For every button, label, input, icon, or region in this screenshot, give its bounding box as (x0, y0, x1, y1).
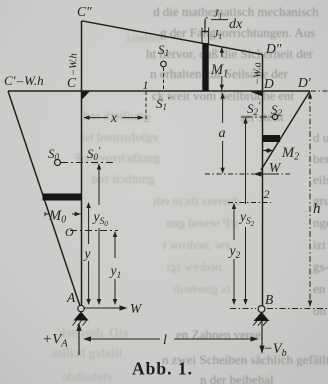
node S1 circle (161, 61, 167, 67)
svg-text:1: 1 (143, 78, 149, 92)
svg-text:.nedrew tgi: .nedrew tgi (166, 259, 225, 274)
svg-text:en Zahnen verse: en Zahnen verse (176, 327, 261, 342)
svg-text:C′ – W.h: C′ – W.h (4, 73, 44, 88)
svg-text:2: 2 (264, 187, 270, 201)
dx tick arrows (202, 30, 208, 33)
svg-text:−W.a: −W.a (253, 62, 264, 85)
svg-text:d u: d u (313, 130, 328, 145)
svg-text:C″: C″ (77, 4, 92, 19)
recto page text (gray) (146, 4, 328, 384)
svg-text:C: C (67, 75, 77, 90)
svg-text:eglofuzmed tsi: eglofuzmed tsi (81, 129, 158, 144)
svg-text:D″: D″ (265, 41, 282, 56)
moment bar M2 (263, 135, 281, 142)
svg-text:x: x (110, 110, 117, 125)
svg-text:nge: nge (313, 215, 328, 230)
B level dash-dot line (230, 308, 328, 310)
svg-text:Abb. 1.: Abb. 1. (132, 359, 193, 379)
beam axis dash-dot extension right of D' (311, 90, 328, 92)
svg-text:gs-: gs- (313, 259, 328, 274)
svg-text:a: a (219, 126, 226, 141)
node S0 circle (55, 160, 61, 166)
dimension y2 (233, 204, 235, 304)
svg-text:gnuthcir red: gnuthcir red (91, 171, 155, 186)
reaction +VA arrow (78, 331, 80, 355)
moment bar M1 (202, 43, 208, 91)
corner wedge at D (250, 92, 262, 97)
svg-text:D′: D′ (297, 75, 312, 90)
dimension h (dash-dot) (309, 94, 311, 306)
dimension y_S2 (245, 119, 247, 304)
left column C''-C-A (81, 21, 83, 305)
dimension y1 (114, 232, 116, 304)
left moment slant C'-A (8, 91, 80, 306)
dimension y_S0 (98, 165, 100, 304)
svg-text:eils: eils (313, 172, 328, 187)
verso show-through text (mirrored, faint) (52, 30, 240, 384)
dimension a (beam to W level) (222, 94, 224, 173)
svg-text:h: h (313, 201, 321, 217)
label M2 with dimension arrows (263, 150, 273, 152)
figure ink (8, 21, 328, 306)
right ordinate and column D''-D-B (262, 55, 264, 307)
svg-text:irP seseid gnu: irP seseid gnu (165, 215, 238, 230)
node S2 circle (272, 114, 277, 119)
S0 level dash line (61, 162, 115, 164)
dimension x (84, 117, 143, 119)
svg-text:O: O (65, 225, 74, 239)
S2 level dash line (245, 116, 272, 118)
support pin A (78, 305, 84, 311)
svg-text:l: l (163, 333, 167, 348)
svg-text:dx: dx (229, 17, 243, 32)
svg-text:W: W (269, 160, 282, 175)
corner wedge at C (82, 92, 90, 100)
svg-text:dnerots thcin eth: dnerots thcin eth (153, 193, 240, 208)
svg-text:D: D (263, 76, 274, 91)
reaction -Vb arrow (261, 321, 263, 346)
svg-text:B: B (265, 292, 273, 307)
beam line C' C D D' (8, 90, 310, 92)
svg-text:elehalbde: elehalbde (62, 369, 112, 384)
dimension M1 (slant to beam) (221, 48, 223, 90)
label M0 with dimension arrows (45, 213, 81, 215)
svg-text:ber: ber (313, 151, 328, 166)
support pin B (258, 306, 265, 313)
svg-text:−W.h: −W.h (69, 53, 80, 76)
svg-text:ew ,nedrow t: ew ,nedrow t (162, 237, 230, 252)
S1 dashed drop line (163, 68, 165, 91)
svg-text:on: on (313, 303, 327, 318)
svg-text:y: y (83, 246, 91, 261)
moment bar M0 (43, 194, 83, 201)
svg-text:eiD .dnis neh: eiD .dnis neh (59, 325, 128, 340)
dimension l (85, 338, 258, 340)
W level dash-dot line at node 2 with W force arrow (205, 173, 290, 175)
dimension y (88, 203, 90, 304)
svg-text:n der beibehal: n der beibehal (200, 372, 274, 384)
svg-text:izt: izt (313, 237, 326, 252)
dx strip ticks above M1 bar (202, 28, 209, 45)
top slant line C''-D'' (82, 21, 263, 55)
A level line with force W arrow (84, 307, 125, 309)
label integral J1/J1 dx (202, 8, 243, 41)
svg-text:en: en (313, 281, 326, 296)
svg-text:W: W (130, 301, 143, 316)
right moment slant D'-column (261, 91, 310, 170)
svg-text:ts gineheib: ts gineheib (173, 281, 230, 296)
svg-text:A: A (66, 290, 76, 305)
